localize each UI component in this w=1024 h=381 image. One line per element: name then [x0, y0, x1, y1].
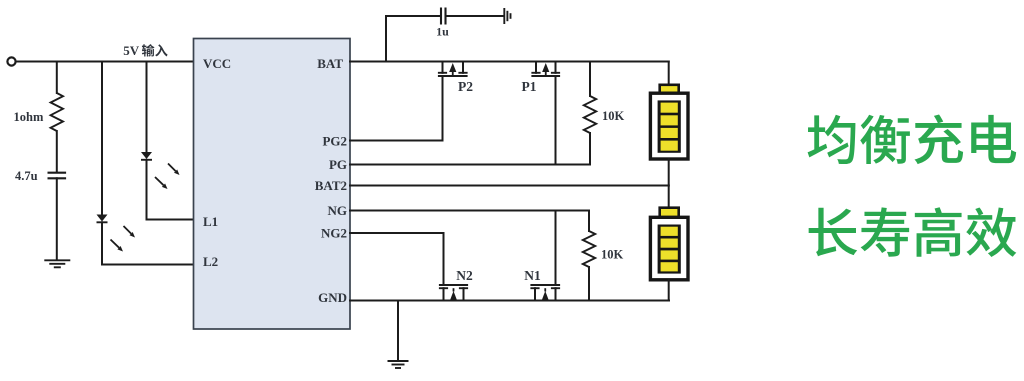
svg-text:NG: NG [328, 203, 348, 218]
wire: BAT rail up to C1 [386, 16, 440, 62]
slogan line 2 [809, 207, 1017, 257]
wire: GND rail [350, 300, 669, 302]
svg-text:BAT: BAT [317, 56, 343, 71]
transistor N1 [530, 211, 560, 302]
svg-text:4.7u: 4.7u [15, 169, 38, 183]
wire: BAT rail to BT1 [668, 62, 670, 86]
wire: R2 to GND rail [588, 267, 590, 301]
wire: R1 to PG net [589, 133, 591, 165]
svg-text:NG2: NG2 [321, 226, 347, 241]
transistor P2 [438, 62, 468, 141]
ground (top, rotated) [504, 8, 510, 24]
wire: NG2 net [350, 232, 444, 234]
svg-text:PG: PG [329, 157, 347, 172]
svg-text:L1: L1 [203, 214, 218, 229]
label P2 [458, 79, 473, 94]
wire: rail to LED D1 [146, 62, 148, 153]
label 10K (R1) [602, 109, 625, 123]
battery BT1 [650, 85, 688, 159]
label 1ohm [14, 110, 44, 124]
resistor R3 1ohm [51, 93, 63, 131]
wire: BT2 to GND rail [668, 280, 670, 301]
transistor P1 [531, 62, 560, 165]
svg-text:10K: 10K [601, 248, 624, 262]
svg-text:1u: 1u [436, 25, 449, 39]
capacitor C1 1u [441, 8, 446, 25]
wire: BT1 to BAT2 net [668, 159, 670, 186]
pin label GND [318, 290, 347, 305]
LED D2 emission arrows [111, 226, 136, 252]
capacitor C2 4.7u [48, 173, 67, 179]
svg-text:P1: P1 [522, 79, 537, 94]
svg-text:L2: L2 [203, 254, 218, 269]
label 10K (R2) [601, 248, 624, 262]
pin label L2 [203, 254, 218, 269]
pin label NG [328, 203, 348, 218]
wire: PG2 net [350, 140, 443, 142]
label N1 [524, 268, 541, 283]
svg-text:N2: N2 [456, 268, 473, 283]
wire: C1 to ground [447, 15, 504, 17]
LED D1 [141, 152, 152, 160]
pin label NG2 [321, 226, 347, 241]
label 4.7u [15, 169, 38, 183]
svg-text:VCC: VCC [203, 56, 231, 71]
wire: PG net [350, 164, 590, 166]
wire: C2 to ground [56, 178, 58, 259]
wire: R3 to C2 [56, 131, 58, 172]
wire: 5V input rail [16, 61, 194, 63]
label: 5V input [123, 43, 167, 58]
transistor N2 [439, 233, 468, 301]
resistor R1 10K [584, 96, 596, 133]
pin label L1 [203, 214, 218, 229]
label N2 [456, 268, 473, 283]
LED D1 emission arrows [155, 164, 180, 190]
svg-text:5V: 5V [123, 43, 140, 58]
svg-text:1ohm: 1ohm [14, 110, 44, 124]
svg-text:BAT2: BAT2 [315, 178, 347, 193]
pin label PG2 [322, 134, 347, 149]
pin label BAT2 [315, 178, 347, 193]
battery BT2 [650, 208, 688, 280]
LED D2 [97, 215, 108, 223]
wire: rail to LED D2 [101, 62, 103, 215]
pin label BAT [317, 56, 343, 71]
wire: LED D1 to L1 pin [147, 160, 194, 220]
wire: LED D2 to L2 pin [102, 222, 194, 264]
label 1u [436, 25, 449, 39]
svg-text:PG2: PG2 [322, 134, 347, 149]
svg-text:GND: GND [318, 290, 347, 305]
pin label PG [329, 157, 347, 172]
wire: NG net [350, 210, 589, 212]
label P1 [522, 79, 537, 94]
resistor R2 10K [583, 231, 595, 267]
wire: NG net to R2 [588, 211, 590, 232]
svg-text:N1: N1 [524, 268, 541, 283]
pin label VCC [203, 56, 231, 71]
svg-text:P2: P2 [458, 79, 473, 94]
op-amp U1 (charger IC body) [194, 39, 351, 330]
wire: BAT2 net to BT2 [668, 186, 670, 208]
input terminal [7, 57, 15, 65]
wire: rail to R1 [589, 62, 591, 97]
wire: rail to R3 [56, 62, 58, 94]
slogan line 1 [808, 114, 1017, 164]
wire: BAT rail [350, 61, 669, 63]
wire: GND rail to ground [397, 301, 399, 361]
ground (left) [44, 260, 70, 267]
wire: BAT2 net [350, 185, 669, 187]
svg-text:10K: 10K [602, 109, 625, 123]
ground (bottom) [388, 361, 409, 368]
